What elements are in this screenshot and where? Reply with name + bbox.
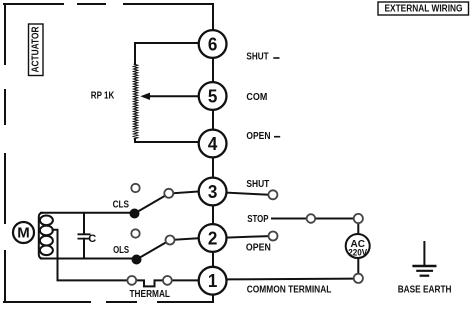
thermal contact left (127, 276, 136, 285)
wire potentiometer bottom to terminal 4 (135, 139, 199, 142)
switch CLS blade (135, 196, 166, 214)
switch OLS unused contact (131, 229, 139, 237)
svg-text:OPEN: OPEN (246, 243, 271, 254)
actuator enclosure dashed border bottom (4, 301, 213, 303)
svg-text:ACTUATOR: ACTUATOR (31, 26, 42, 73)
potentiometer wiper arrowhead (140, 93, 150, 100)
wire common terminal from terminal 1 to AC bottom (227, 278, 354, 281)
svg-text:M: M (17, 226, 30, 242)
wire terminal 6 to potentiometer top (135, 43, 199, 64)
terminal 2 (199, 224, 227, 252)
actuator enclosure dashed border left (4, 4, 6, 302)
svg-text:220V: 220V (348, 248, 367, 258)
wire terminal 3 to 2 (212, 206, 214, 223)
switch CLS pivot (130, 209, 140, 219)
actuator enclosure dashed border top (4, 3, 213, 5)
terminal 4 (199, 130, 227, 158)
svg-text:C: C (88, 233, 96, 245)
stop wire open contact (307, 214, 316, 223)
wire motor tap down to thermal (53, 230, 128, 281)
terminal 6 (199, 30, 227, 58)
svg-text:BASE EARTH: BASE EARTH (398, 285, 452, 296)
svg-text:THERMAL: THERMAL (130, 289, 171, 300)
svg-text:CLS: CLS (113, 200, 130, 211)
svg-text:3: 3 (208, 182, 218, 202)
wire thermal bump (136, 280, 163, 286)
svg-text:COM: COM (246, 92, 267, 103)
svg-text:EXTERNAL WIRING: EXTERNAL WIRING (385, 4, 463, 15)
thermal contact right (163, 276, 172, 285)
svg-text:SHUT: SHUT (246, 179, 269, 190)
svg-text:5: 5 (208, 86, 218, 106)
wire terminal 4 to 3 (212, 158, 214, 176)
wire stub after OPEN (274, 136, 280, 138)
svg-text:COMMON TERMINAL: COMMON TERMINAL (247, 285, 332, 296)
terminal 1 (199, 267, 227, 295)
wire AC branch vertical top (357, 223, 359, 234)
wire terminal 2 to 1 (212, 253, 214, 266)
open wire open end (269, 232, 278, 241)
AC source U1 (346, 234, 370, 258)
motor M (13, 222, 34, 243)
svg-text:4: 4 (208, 134, 218, 154)
motor winding coil (39, 213, 53, 259)
stop wire corner open contact (354, 214, 363, 223)
wire terminal column top from border to terminal 6 (212, 4, 214, 29)
terminal 3 (199, 178, 227, 206)
wire terminal 2 to open end (226, 236, 268, 238)
svg-text:STOP: STOP (247, 214, 269, 225)
switch CLS unused contact (131, 184, 139, 192)
potentiometer RP 1K zigzag body (134, 64, 138, 139)
wire thermal to terminal 1 (172, 279, 199, 281)
capacitor C plates (78, 234, 91, 238)
wire stop line to AC top (272, 218, 354, 220)
wire CLS contact to terminal 3 (173, 191, 199, 193)
wire terminal 5 to 4 (212, 111, 214, 129)
ground BASE EARTH (412, 241, 436, 276)
wire terminal 1 down to bottom border (212, 296, 214, 303)
wire AC branch vertical bottom (357, 257, 359, 274)
terminal 5 (199, 82, 227, 110)
switch OLS contact (166, 236, 175, 245)
wire stub after SHUT (273, 57, 279, 59)
label box EXTERNAL WIRING (378, 2, 469, 15)
shut wire open end (268, 190, 277, 199)
wire terminal 6 to 5 (212, 59, 214, 81)
switch OLS blade (137, 242, 167, 259)
svg-text:2: 2 (208, 228, 218, 248)
wire OLS contact to terminal 2 (175, 238, 200, 240)
wire coil bottom to OLS pivot (41, 259, 137, 260)
svg-text:SHUT: SHUT (246, 52, 268, 63)
wire terminal 3 to shut open end (226, 193, 268, 195)
svg-text:6: 6 (208, 34, 218, 54)
AC bottom open contact (354, 274, 363, 283)
svg-text:OPEN: OPEN (246, 131, 270, 142)
svg-text:RP 1K: RP 1K (91, 90, 115, 101)
wire coil top to CLS pivot (41, 212, 135, 215)
wire wiper arrow line from terminal 5 (147, 95, 199, 97)
switch CLS contact (164, 189, 173, 198)
switch OLS pivot (132, 255, 142, 265)
svg-text:1: 1 (208, 271, 218, 291)
label box ACTUATOR (29, 24, 44, 76)
capacitor C leads (83, 213, 85, 259)
svg-text:OLS: OLS (113, 245, 129, 256)
